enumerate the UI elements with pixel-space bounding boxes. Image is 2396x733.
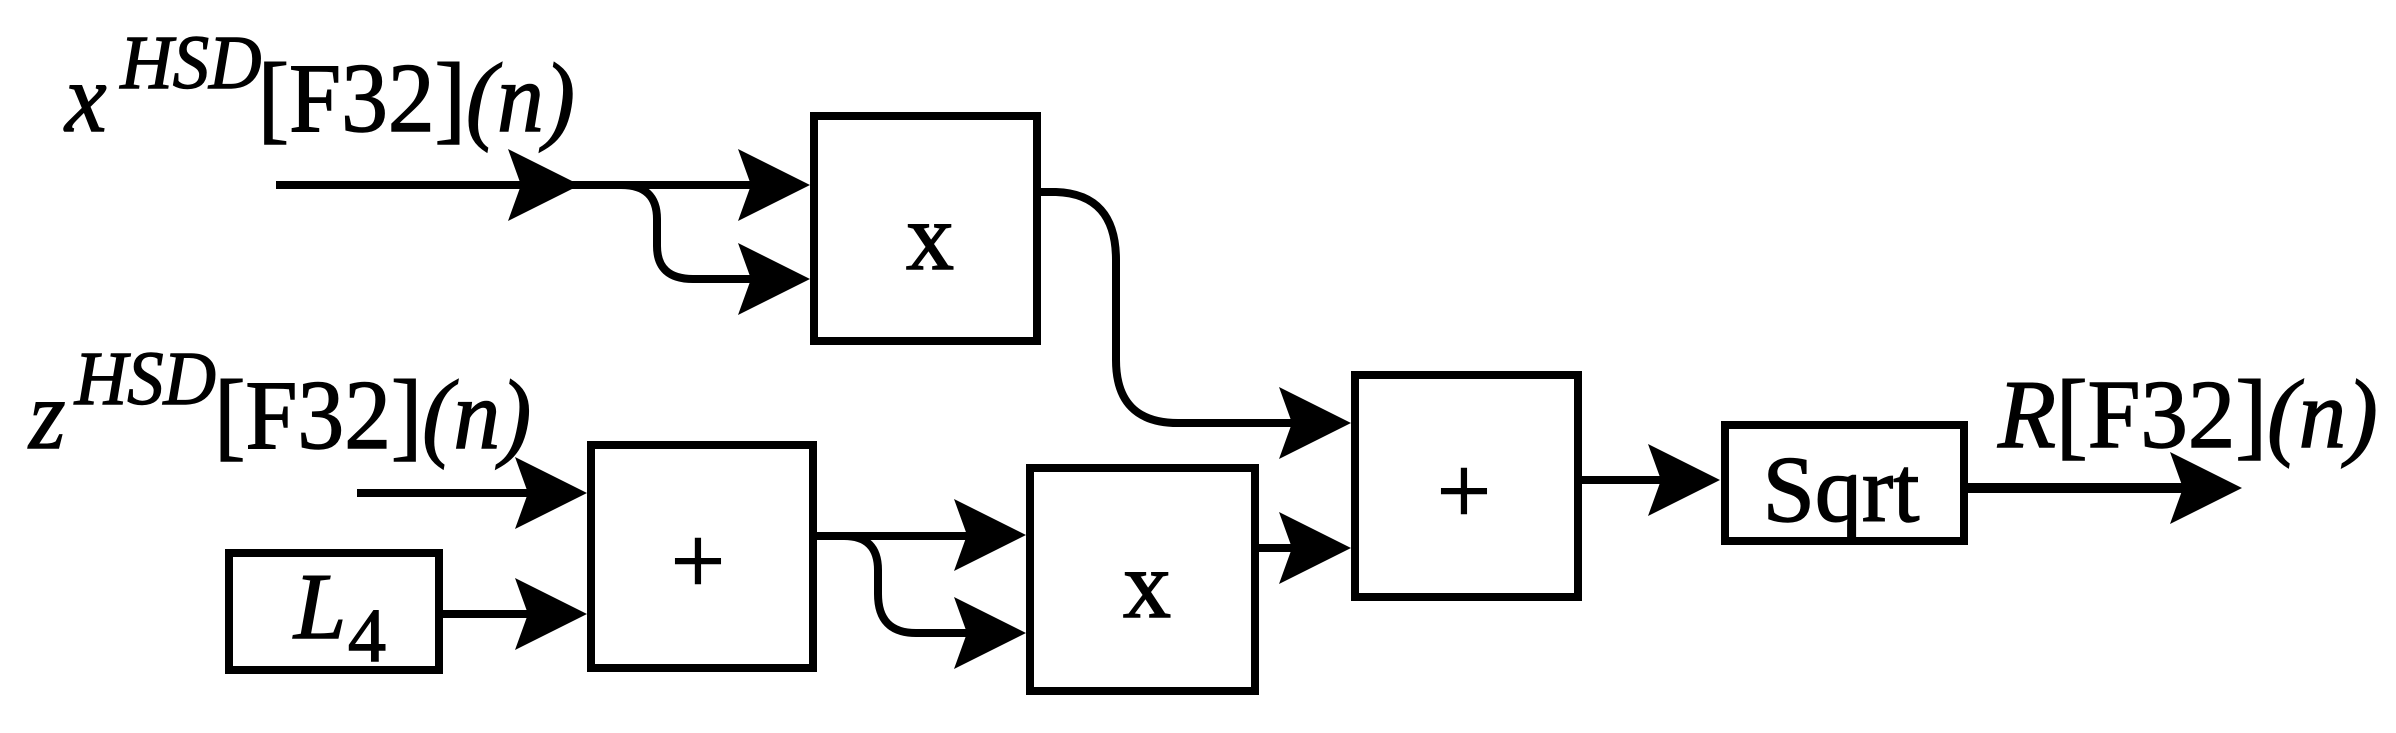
arrowhead: adder A1 upper input [515,457,587,529]
adder box A2 [1355,375,1578,597]
svg-text:x: x [906,183,954,290]
svg-text:[F32](n): [F32](n) [258,44,575,152]
arrowhead: adder A2 upper input [1279,387,1351,459]
wire: x branch S-curve to M1 lower input [621,185,793,279]
arrowhead: Sqrt input [1648,444,1720,516]
wire: M2 output line to A2 lower input [1259,544,1315,552]
wire: A2 output line to Sqrt input [1582,476,1680,484]
wire: R output line [1968,483,2200,493]
arrowhead: multiplier M1 upper input [738,149,810,221]
adder box A1 [591,445,813,668]
svg-text:x: x [1123,531,1171,638]
label + in A2 [1437,437,1491,544]
arrowhead: R output [2170,452,2242,524]
arrowhead: adder A2 lower input [1279,512,1351,584]
arrowhead: multiplier M1 lower input [738,243,810,315]
wire: A1 output straight line to M2 upper input [817,532,990,540]
label Sqrt [1763,438,1920,542]
label x in M1 [906,183,954,290]
multiplier box M2 [1030,468,1255,691]
node label xHSD[F32](n) [63,22,575,153]
node label zHSD[F32](n) [27,338,531,470]
svg-text:HSD: HSD [74,338,216,422]
svg-text:+: + [671,507,725,614]
svg-text:L: L [292,555,346,659]
label x in M2 [1123,531,1171,638]
svg-text:z: z [27,361,65,469]
arrowhead: multiplier M2 lower input [954,597,1026,669]
arrowhead: multiplier M2 upper input [954,499,1026,571]
svg-text:[F32](n): [F32](n) [214,361,531,469]
svg-text:HSD: HSD [119,22,261,106]
wire: L4 output line [443,610,545,618]
label L4 [292,555,386,678]
wire: x input line [276,181,795,189]
svg-text:4: 4 [348,594,386,678]
svg-text:+: + [1437,437,1491,544]
node label R[F32](n) [1997,360,2378,469]
sqrt box S1 [1725,425,1964,541]
multiplier box M1 [814,116,1037,341]
wire: M1 output S-curve to adder A2 upper input [1041,192,1341,423]
svg-text:x: x [63,44,106,152]
svg-text:Sqrt: Sqrt [1763,438,1920,542]
wire: z input line [357,489,545,497]
label + in A1 [671,507,725,614]
constant box L4 [229,553,439,670]
arrowhead: adder A1 lower input [515,578,587,650]
wire: A1 branch S-curve to M2 lower input [844,536,990,633]
svg-text:R[F32](n): R[F32](n) [1997,360,2378,469]
arrowhead: x input mid-line [508,149,580,221]
